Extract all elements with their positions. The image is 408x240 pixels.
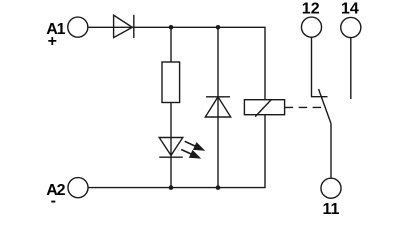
svg-text:12: 12 [302, 1, 320, 18]
svg-text:11: 11 [323, 201, 340, 218]
wire resistor to LED and down to bottom rail [170, 103, 172, 188]
wire from 14 (NO fixed contact) [350, 38, 352, 99]
svg-text:14: 14 [341, 1, 359, 18]
terminal A1 [68, 17, 88, 37]
node: junction top of diode V2 branch [216, 25, 221, 30]
terminal 12 [301, 17, 321, 37]
terminal 14 [341, 17, 361, 37]
terminal A2 [68, 178, 88, 198]
node: junction bottom of diode V2 branch [216, 185, 221, 190]
terminal 11 [321, 178, 341, 198]
LED V1 [159, 138, 205, 159]
svg-text:+: + [48, 33, 57, 50]
wire resistor branch upper [170, 27, 172, 62]
svg-text:A2: A2 [46, 182, 65, 199]
wire from 12 to NC fixed contact seat [312, 37, 328, 97]
wire bottom rail from A2 to relay coil K1 [88, 115, 265, 188]
relay coil K1 [244, 100, 284, 117]
node: junction bottom of LED branch [169, 185, 174, 190]
wire top rail from A1 to relay coil K1 [88, 27, 265, 99]
wire lever to terminal 11 [330, 124, 332, 179]
node: junction top of resistor branch [169, 25, 174, 30]
switch lever (changeover contact) [319, 89, 332, 124]
diode D1 [114, 15, 134, 38]
mechanical link from relay coil (dashed) [285, 106, 326, 108]
svg-text:-: - [51, 193, 56, 210]
resistor R1 [162, 62, 180, 103]
wire diode V2 branch (top rail to bottom rail) [217, 27, 219, 187]
freewheeling diode V2 [205, 97, 230, 117]
